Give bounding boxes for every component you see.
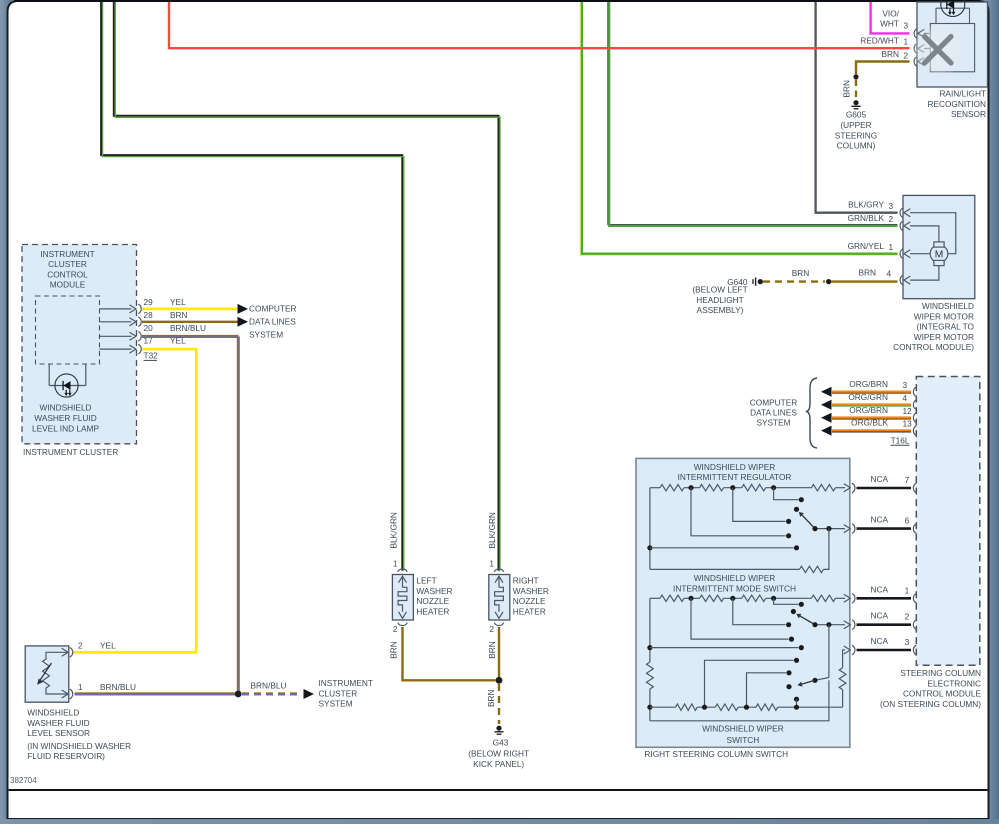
- wire NCA pin 3: [852, 645, 855, 655]
- mode switch arm: [796, 614, 815, 625]
- footer divider line: [9, 789, 988, 791]
- instrument cluster outer dashed box: [22, 245, 137, 444]
- svg-text:VIO/: VIO/: [882, 8, 899, 18]
- wire YEL pin 29: [142, 307, 238, 310]
- wire NCA pin 1: [852, 594, 855, 604]
- pin labels 29/28/20/17 T32: [144, 297, 159, 361]
- wire ORG/BLK pin 13: [832, 431, 911, 432]
- svg-text:382704: 382704: [10, 776, 37, 785]
- svg-text:BRN: BRN: [389, 641, 399, 659]
- svg-text:ORG/GRN: ORG/GRN: [848, 392, 888, 402]
- svg-text:(IN WINDSHIELD WASHER: (IN WINDSHIELD WASHER: [27, 741, 131, 751]
- svg-text:1: 1: [489, 559, 494, 569]
- svg-text:(UPPER: (UPPER: [840, 120, 871, 130]
- svg-text:6: 6: [905, 516, 910, 526]
- wire BLK/GRN to left washer nozzle heater: [101, 2, 404, 571]
- svg-text:RIGHT STEERING COLUMN SWITCH: RIGHT STEERING COLUMN SWITCH: [644, 749, 788, 759]
- svg-text:ASSEMBLY): ASSEMBLY): [697, 305, 744, 315]
- regulator left vertical with tap: [647, 488, 799, 570]
- wiper contact stub: [794, 697, 799, 708]
- window background left edge: [0, 0, 12, 819]
- svg-text:T32: T32: [144, 351, 159, 361]
- wiper outer loop: [650, 680, 829, 721]
- computer data lines system text left: [249, 304, 296, 340]
- svg-text:CONTROL MODULE): CONTROL MODULE): [893, 342, 974, 352]
- svg-text:COLUMN): COLUMN): [837, 141, 876, 151]
- svg-text:1: 1: [78, 682, 83, 692]
- svg-text:NCA: NCA: [870, 636, 888, 646]
- wire BRN pin 28: [142, 321, 238, 323]
- svg-text:(BELOW RIGHT: (BELOW RIGHT: [468, 749, 529, 759]
- steering column electronic control module dashed box: [916, 377, 980, 666]
- level sensor arrow: [39, 663, 52, 683]
- svg-text:INSTRUMENT: INSTRUMENT: [319, 678, 373, 688]
- svg-text:BRN: BRN: [881, 49, 899, 59]
- wire BLK/GRY to wiper motor pin 3: [816, 2, 898, 213]
- svg-text:SYSTEM: SYSTEM: [319, 699, 353, 709]
- mode switch resistor row: [650, 594, 850, 602]
- svg-text:M: M: [935, 249, 944, 260]
- wire VIO/WHT to rain/light sensor pin 3: [871, 2, 910, 33]
- windshield wiper motor box: [900, 195, 975, 298]
- svg-text:BRN: BRN: [842, 80, 852, 98]
- svg-text:BRN: BRN: [858, 268, 876, 278]
- svg-text:4: 4: [887, 269, 892, 279]
- wire BRN dashed G640: [763, 280, 825, 282]
- svg-text:WHT: WHT: [880, 19, 899, 29]
- left washer nozzle heater labels: [393, 559, 453, 635]
- cluster pin line 1: [100, 308, 132, 310]
- photodiode in sensor: [941, 0, 965, 17]
- svg-text:1: 1: [904, 36, 909, 46]
- steering column module label: [880, 668, 981, 709]
- svg-text:LEVEL IND LAMP: LEVEL IND LAMP: [32, 423, 99, 433]
- svg-text:4: 4: [903, 393, 908, 403]
- mode output line NCA2 inside: [812, 621, 850, 629]
- wire BRN left heater pin2: [403, 627, 496, 680]
- svg-text:G605: G605: [846, 110, 867, 120]
- svg-text:NCA: NCA: [870, 474, 888, 484]
- wiper bottom resistor row: [647, 704, 842, 710]
- wire NCA pin 7: [852, 483, 855, 493]
- regulator resistor row: [650, 484, 850, 492]
- wire BLK/GRN to right washer nozzle heater: [114, 2, 500, 571]
- svg-text:BRN: BRN: [487, 641, 497, 659]
- svg-text:INSTRUMENT CLUSTER: INSTRUMENT CLUSTER: [23, 447, 118, 457]
- X cursor overlay: [912, 23, 966, 77]
- svg-text:WINDSHIELD WIPER: WINDSHIELD WIPER: [694, 573, 776, 583]
- wire YEL pin 17: [73, 349, 196, 652]
- svg-text:FLUID RESERVOIR): FLUID RESERVOIR): [27, 751, 105, 761]
- svg-text:INTERMITTENT MODE SWITCH: INTERMITTENT MODE SWITCH: [673, 584, 796, 594]
- svg-text:WINDSHIELD: WINDSHIELD: [39, 403, 91, 413]
- svg-text:YEL: YEL: [170, 336, 186, 346]
- svg-text:DATA LINES: DATA LINES: [249, 317, 296, 327]
- svg-text:YEL: YEL: [100, 640, 116, 650]
- wiper contact isolated: [786, 684, 791, 689]
- svg-text:3: 3: [905, 637, 910, 647]
- instrument cluster system text: [319, 678, 373, 709]
- svg-text:BRN: BRN: [170, 310, 188, 320]
- svg-text:WINDSHIELD: WINDSHIELD: [922, 301, 974, 311]
- svg-text:RIGHT: RIGHT: [513, 576, 539, 586]
- svg-text:RED/WHT: RED/WHT: [860, 36, 899, 46]
- svg-text:MODULE: MODULE: [50, 280, 86, 290]
- svg-text:CONTROL: CONTROL: [47, 269, 88, 279]
- lamp label: [32, 403, 99, 434]
- wire BRN/BLU dashed to instrument cluster system: [242, 693, 302, 694]
- svg-text:T16L: T16L: [891, 435, 910, 445]
- wire BRN/BLU pin 20: [142, 336, 239, 694]
- title windshield wiper switch: [702, 723, 784, 745]
- svg-text:HEATER: HEATER: [416, 606, 449, 616]
- wire ORG/GRN pin 4: [832, 405, 911, 406]
- svg-text:YEL: YEL: [170, 297, 186, 307]
- mode left vertical with tap: [647, 598, 804, 662]
- wire BRN/BLU pin1 to junction: [75, 693, 239, 694]
- svg-text:WASHER FLUID: WASHER FLUID: [27, 718, 89, 728]
- svg-text:WASHER: WASHER: [513, 586, 549, 596]
- svg-text:3: 3: [889, 201, 894, 211]
- title windshield wiper intermittent mode switch: [673, 573, 796, 593]
- svg-text:29: 29: [144, 297, 154, 307]
- level sensor pin 2: [62, 648, 68, 656]
- washer fluid level indicator lamp: [55, 374, 78, 397]
- mode branch from second tap: [733, 598, 791, 627]
- lamp legs: [49, 364, 86, 386]
- svg-text:28: 28: [144, 310, 154, 320]
- wire ORG/BRN pin 3: [832, 392, 911, 393]
- svg-text:HEATER: HEATER: [513, 606, 546, 616]
- svg-text:KICK PANEL): KICK PANEL): [473, 759, 524, 769]
- wire NCA pin 2: [852, 620, 855, 630]
- svg-text:SYSTEM: SYSTEM: [249, 330, 283, 340]
- svg-text:WIPER MOTOR: WIPER MOTOR: [914, 311, 974, 321]
- svg-text:BLK/GRN: BLK/GRN: [487, 512, 497, 548]
- mode contact: [791, 609, 796, 614]
- svg-text:BRN: BRN: [486, 689, 496, 707]
- svg-text:1: 1: [393, 559, 398, 569]
- ground G640: [692, 277, 763, 315]
- regulator feedback resistor: [650, 529, 829, 573]
- computer data lines system text right: [750, 397, 798, 427]
- motor symbol M: [930, 245, 948, 263]
- window background right edge: [985, 0, 999, 819]
- sensor pin 1: [914, 44, 917, 54]
- svg-text:BRN: BRN: [792, 268, 810, 278]
- svg-text:WIPER MOTOR: WIPER MOTOR: [914, 332, 974, 342]
- svg-text:(ON STEERING COLUMN): (ON STEERING COLUMN): [880, 699, 981, 709]
- regulator branch from first tap: [691, 488, 791, 539]
- regulator output line NCA6 inside: [812, 525, 850, 533]
- wire GRN/YEL to wiper motor pin 1: [580, 2, 897, 255]
- curly brace: [806, 378, 817, 448]
- rain/light recognition sensor box: [914, 0, 987, 87]
- svg-text:CONTROL MODULE: CONTROL MODULE: [903, 689, 982, 699]
- svg-text:2: 2: [393, 624, 398, 634]
- svg-text:STEERING: STEERING: [835, 130, 877, 140]
- svg-text:RAIN/LIGHT: RAIN/LIGHT: [939, 89, 986, 99]
- cluster pin line 3: [100, 335, 132, 337]
- svg-text:NCA: NCA: [870, 515, 888, 525]
- wire BRN sensor pin2 to G605: [856, 62, 910, 75]
- mode branch from first tap: [691, 598, 794, 641]
- svg-text:BLK/GRY: BLK/GRY: [848, 200, 884, 210]
- svg-text:2: 2: [78, 640, 83, 650]
- svg-text:SWITCH: SWITCH: [727, 735, 760, 745]
- svg-text:GRN/YEL: GRN/YEL: [848, 241, 885, 251]
- wire BRN to motor pin 4: [831, 280, 898, 282]
- svg-text:1: 1: [905, 585, 910, 595]
- regulator branch from third tap: [774, 488, 804, 503]
- svg-text:SENSOR: SENSOR: [951, 109, 986, 119]
- svg-text:CLUSTER: CLUSTER: [319, 688, 358, 698]
- right washer nozzle heater labels: [489, 559, 549, 635]
- level sensor label: [27, 708, 131, 762]
- svg-text:COMPUTER: COMPUTER: [750, 397, 797, 407]
- svg-text:HEADLIGHT: HEADLIGHT: [696, 295, 743, 305]
- wiper contact from second tap: [747, 670, 792, 707]
- svg-text:BLK/GRN: BLK/GRN: [389, 512, 399, 548]
- svg-text:(BELOW LEFT: (BELOW LEFT: [692, 285, 747, 295]
- svg-text:WINDSHIELD WIPER: WINDSHIELD WIPER: [702, 723, 784, 733]
- svg-text:WINDSHIELD: WINDSHIELD: [27, 708, 79, 718]
- instrument cluster control module title: [40, 249, 94, 290]
- svg-text:BRN/BLU: BRN/BLU: [251, 680, 287, 690]
- svg-text:WASHER: WASHER: [416, 586, 452, 596]
- motor pin 3: [900, 208, 903, 218]
- svg-text:12: 12: [903, 406, 913, 416]
- windshield washer fluid level sensor box: [25, 646, 73, 702]
- svg-text:13: 13: [903, 419, 913, 429]
- svg-text:NOZZLE: NOZZLE: [416, 596, 449, 606]
- svg-text:CLUSTER: CLUSTER: [48, 259, 87, 269]
- svg-text:LEFT: LEFT: [416, 576, 436, 586]
- svg-text:RECOGNITION: RECOGNITION: [927, 99, 986, 109]
- svg-text:BRN/BLU: BRN/BLU: [100, 682, 136, 692]
- svg-text:INSTRUMENT: INSTRUMENT: [40, 249, 94, 259]
- svg-text:NCA: NCA: [870, 584, 888, 594]
- svg-text:2: 2: [905, 612, 910, 622]
- wire BRN dashed to G43: [498, 684, 500, 724]
- svg-text:2: 2: [904, 50, 909, 60]
- svg-text:ELECTRONIC: ELECTRONIC: [928, 678, 981, 688]
- svg-text:7: 7: [905, 475, 910, 485]
- wire GRN/BLK to wiper motor pin 2: [608, 2, 898, 226]
- motor pin 1: [900, 249, 903, 259]
- motor pin 4: [900, 275, 903, 285]
- sensor pin 2: [914, 57, 917, 67]
- regulator switch arm: [799, 512, 815, 529]
- wire ORG/BRN pin 12: [832, 418, 911, 419]
- sensor pin 3: [914, 29, 917, 39]
- right washer nozzle heater box: [489, 569, 510, 626]
- svg-text:G43: G43: [493, 738, 509, 748]
- rain/light sensor label: [927, 89, 986, 120]
- svg-text:ORG/BRN: ORG/BRN: [849, 379, 888, 389]
- svg-text:WASHER FLUID: WASHER FLUID: [34, 413, 96, 423]
- level sensor pin 1: [62, 690, 68, 698]
- NCA3 inner line and right resistor: [839, 646, 850, 707]
- svg-text:STEERING COLUMN: STEERING COLUMN: [900, 668, 981, 678]
- title windshield wiper intermittent regulator: [678, 462, 792, 482]
- mode branch from third tap: [774, 598, 804, 607]
- svg-text:2: 2: [889, 214, 894, 224]
- cluster pin line 2: [100, 321, 132, 323]
- left washer nozzle heater box: [392, 569, 413, 626]
- svg-text:BRN/BLU: BRN/BLU: [170, 323, 206, 333]
- ground G43: [468, 726, 529, 769]
- svg-text:(INTEGRAL TO: (INTEGRAL TO: [917, 322, 975, 332]
- wiper switch arm: [798, 625, 829, 687]
- page top black bar: [14, 0, 980, 2]
- wire BRN dashed to G605 ground: [855, 80, 857, 101]
- ground G605: [835, 80, 877, 151]
- svg-text:ORG/BRN: ORG/BRN: [849, 405, 888, 415]
- svg-text:COMPUTER: COMPUTER: [249, 304, 296, 314]
- svg-text:NOZZLE: NOZZLE: [513, 596, 546, 606]
- svg-text:3: 3: [904, 21, 909, 31]
- wire labels YEL BRN BRN/BLU YEL: [170, 297, 206, 346]
- svg-text:LEVEL SENSOR: LEVEL SENSOR: [27, 728, 90, 738]
- regulator contact: [794, 507, 799, 512]
- inner module dashed box: [36, 296, 100, 364]
- svg-text:DATA LINES: DATA LINES: [750, 407, 797, 417]
- cluster pin line 4: [100, 348, 132, 350]
- regulator branch from second tap: [733, 488, 791, 524]
- svg-text:INTERMITTENT REGULATOR: INTERMITTENT REGULATOR: [678, 472, 792, 482]
- wiper switch upper contact line: [705, 658, 800, 708]
- svg-text:2: 2: [489, 624, 494, 634]
- wiper motor label: [893, 301, 974, 352]
- motor pin 2: [900, 221, 903, 231]
- wire RED/WHT to rain/light sensor pin 1: [169, 2, 910, 48]
- wire BRN right heater pin2: [498, 627, 500, 677]
- svg-text:SYSTEM: SYSTEM: [756, 417, 790, 427]
- svg-text:20: 20: [144, 323, 154, 333]
- svg-text:3: 3: [903, 380, 908, 390]
- svg-text:NCA: NCA: [870, 611, 888, 621]
- svg-text:WINDSHIELD WIPER: WINDSHIELD WIPER: [694, 462, 776, 472]
- svg-text:1: 1: [889, 242, 894, 252]
- svg-text:ORG/BLK: ORG/BLK: [851, 418, 888, 428]
- svg-text:GRN/BLK: GRN/BLK: [848, 213, 885, 223]
- right steering column switch box: [636, 458, 850, 747]
- wire NCA pin 6: [852, 524, 855, 534]
- left vertical resistor: [647, 662, 654, 689]
